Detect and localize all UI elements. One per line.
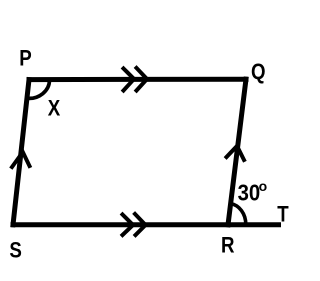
svg-text:R: R xyxy=(221,234,235,258)
svg-text:30: 30 xyxy=(238,179,261,206)
svg-text:Q: Q xyxy=(251,61,266,85)
svg-text:T: T xyxy=(277,203,289,227)
svg-text:X: X xyxy=(48,97,61,121)
svg-text:o: o xyxy=(259,178,268,194)
svg-text:P: P xyxy=(19,47,31,71)
svg-text:S: S xyxy=(9,239,21,263)
